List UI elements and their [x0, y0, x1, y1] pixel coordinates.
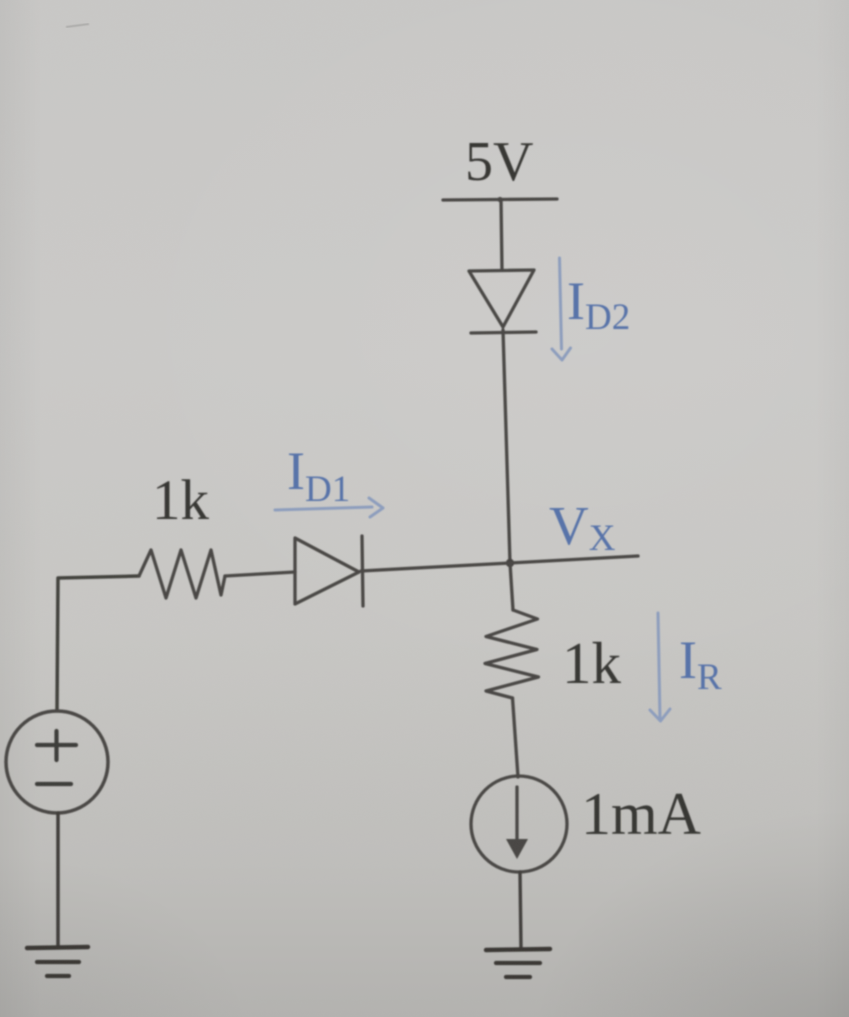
- ground left bar 2: [37, 960, 79, 964]
- wire: node Vx to resistor R2: [510, 563, 513, 610]
- ground right bar 2: [496, 961, 540, 965]
- 5V supply rail: [443, 199, 557, 200]
- wire: R2 to current source I1: [513, 698, 519, 777]
- ground right bar 3: [506, 975, 530, 979]
- voltage source V1 minus sign: [37, 782, 71, 786]
- ground left bar 3: [47, 974, 69, 978]
- current source I1 circle: [471, 776, 567, 872]
- wire: voltage source up to corner then right to R1: [57, 576, 139, 711]
- dark ink group: [6, 197, 638, 977]
- current arrow ID2 blue: [552, 258, 571, 360]
- junction nub on 5V rail: [497, 197, 502, 202]
- wire: 5V rail to D2 anode: [501, 200, 502, 270]
- current source I1 arrow shaft: [515, 787, 518, 840]
- faint scratch on paper: [66, 24, 89, 27]
- resistor R2 1k vertical zigzag: [485, 610, 539, 698]
- ground right bar 1: [486, 949, 550, 950]
- ground left bar 1: [27, 947, 88, 948]
- diode D1: [295, 538, 359, 604]
- diode D2: [469, 270, 534, 327]
- current arrow ID1 blue underline: [275, 498, 383, 517]
- wire: node Vx to right stub: [510, 556, 638, 563]
- diode D2 cathode bar: [471, 332, 536, 333]
- wire: D1 cathode to node Vx: [361, 563, 510, 571]
- current source I1 arrow head: [506, 839, 528, 859]
- diode D1 cathode bar: [362, 536, 363, 606]
- voltage source V1 plus sign: [37, 743, 76, 747]
- wire: D2 cathode to node Vx: [503, 330, 510, 563]
- wire: R1 to D1 anode: [225, 572, 295, 576]
- voltage source V1 circle: [6, 711, 108, 813]
- dark text group: [152, 131, 701, 847]
- resistor R1 1k horizontal zigzag: [139, 550, 225, 598]
- current arrow IR blue: [650, 613, 670, 721]
- subtle photo grain: [0, 0, 1, 1]
- wire: voltage source to left ground: [56, 813, 60, 947]
- wire: current source to right ground: [520, 872, 521, 948]
- node Vx junction dot: [506, 559, 514, 567]
- blue annotation group: [275, 258, 722, 721]
